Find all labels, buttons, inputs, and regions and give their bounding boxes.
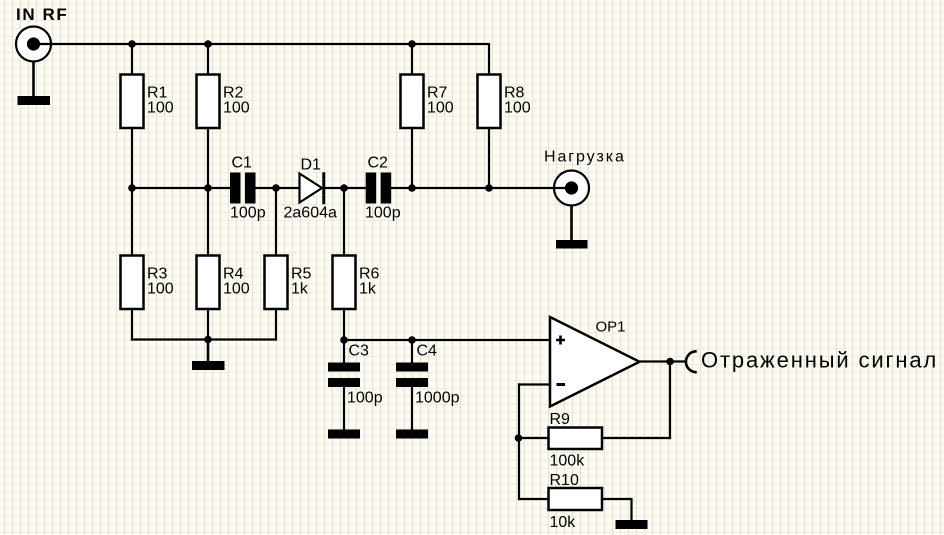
resistor R6 [333, 256, 356, 310]
wire noninverting bus (R6/C3/C4 to op-amp +) [344, 339, 550, 341]
svg-text:100: 100 [427, 100, 454, 117]
wire C1 to D1 [256, 187, 300, 189]
connector output port (arc) [686, 351, 695, 372]
ground at IN RF connector [18, 62, 51, 106]
connector J1 (IN RF input) [16, 27, 51, 62]
wire top bus [40, 44, 489, 75]
wire R4 top lead [207, 188, 209, 256]
wire R9 right lead [602, 437, 670, 439]
wire R9 left lead [519, 437, 549, 439]
svg-text:100: 100 [223, 100, 250, 117]
svg-text:100: 100 [223, 281, 250, 298]
wire R7 top lead [411, 44, 413, 75]
wire C4 top lead [411, 340, 413, 363]
junction node top bus / R7 [408, 40, 416, 48]
svg-text:IN RF: IN RF [16, 5, 68, 24]
svg-text:100: 100 [147, 100, 174, 117]
svg-text:100p: 100p [230, 205, 266, 222]
ground at C4 [396, 430, 428, 439]
wire R5 top lead [275, 188, 277, 256]
svg-text:C2: C2 [368, 155, 389, 172]
connector J2 (Нагрузка load) [554, 171, 589, 206]
wire R3 bottom lead [131, 309, 133, 340]
resistor R5 [265, 256, 288, 310]
svg-text:R9: R9 [550, 411, 571, 428]
wire mid bus left (R1 node to C1) [132, 187, 230, 189]
wire feedback left vertical [518, 385, 520, 500]
junction node mid bus / R5 [272, 184, 280, 192]
svg-text:100p: 100p [365, 205, 401, 222]
wire R2 top lead [207, 44, 209, 75]
svg-text:1k: 1k [291, 281, 309, 298]
wire D1 to C2 [324, 187, 366, 189]
resistor R2 [197, 75, 220, 129]
ground at R10 [616, 520, 648, 529]
wire R2 bottom lead [207, 128, 209, 188]
junction node mid bus / R4 [204, 184, 212, 192]
wire op-amp output [640, 360, 686, 362]
capacitor C4 [396, 363, 428, 388]
svg-text:OP1: OP1 [596, 319, 626, 336]
junction node mid bus / R7 [408, 184, 416, 192]
wire R1 bottom lead [131, 128, 133, 188]
wire C4 bottom lead [411, 387, 413, 430]
svg-text:100: 100 [147, 281, 174, 298]
resistor R9 [549, 428, 603, 450]
svg-text:Нагрузка: Нагрузка [544, 149, 626, 166]
wire R10 right lead [602, 499, 632, 520]
svg-text:2a604a: 2a604a [284, 205, 337, 222]
svg-text:100p: 100p [347, 390, 383, 407]
diode D1 [300, 172, 324, 204]
wire R4 bottom lead [207, 309, 209, 340]
wire R6 top lead [343, 188, 345, 256]
junction node C3 [340, 336, 348, 344]
svg-text:10k: 10k [550, 514, 577, 531]
svg-text:100k: 100k [550, 453, 586, 470]
resistor R1 [121, 75, 144, 129]
wire feedback right vertical [669, 362, 671, 439]
capacitor C1 [230, 173, 256, 204]
ground at R3/R4/R5 rail [192, 340, 225, 371]
resistor R8 [478, 75, 501, 129]
wire ground rail R3-R5 [132, 338, 276, 340]
svg-text:Отраженный сигнал: Отраженный сигнал [701, 348, 938, 373]
svg-text:C3: C3 [349, 343, 370, 360]
resistor R10 [549, 488, 603, 510]
wire C3 top lead [343, 340, 345, 363]
ground at load connector [556, 206, 588, 249]
wire inverting input stub [519, 383, 550, 385]
op-amp OP1 [550, 317, 640, 407]
wire C3 bottom lead [343, 387, 345, 430]
junction node feedback / R9 [515, 434, 523, 442]
resistor R4 [197, 256, 220, 310]
resistor R7 [401, 75, 424, 129]
junction node mid bus / R3 [128, 184, 136, 192]
wire R5 bottom lead [275, 309, 277, 340]
wire R3 top lead [131, 188, 133, 256]
wire R8 bottom lead [488, 128, 490, 188]
junction node top bus / R1 [128, 40, 136, 48]
junction node output [666, 358, 674, 366]
junction node ground rail / R4 [204, 336, 212, 344]
wire R10 left lead [519, 498, 549, 500]
junction node top bus / R2 [204, 40, 212, 48]
wire R1 top lead [131, 44, 133, 75]
wire R6 bottom lead [343, 309, 345, 340]
junction node mid bus / R8 [485, 184, 493, 192]
svg-text:C4: C4 [417, 343, 438, 360]
svg-text:100: 100 [504, 100, 531, 117]
capacitor C3 [328, 363, 360, 388]
resistor R3 [121, 256, 144, 310]
junction node mid bus / R6 [340, 184, 348, 192]
capacitor C2 [366, 173, 392, 204]
svg-text:1k: 1k [359, 281, 377, 298]
wire C2 to load connector [391, 187, 571, 189]
svg-text:1000p: 1000p [415, 390, 460, 407]
svg-text:D1: D1 [301, 157, 322, 174]
ground at C3 [328, 430, 360, 439]
svg-text:C1: C1 [232, 155, 253, 172]
wire R7 bottom lead [411, 128, 413, 188]
svg-text:R10: R10 [550, 472, 579, 489]
junction node C4 [408, 336, 416, 344]
